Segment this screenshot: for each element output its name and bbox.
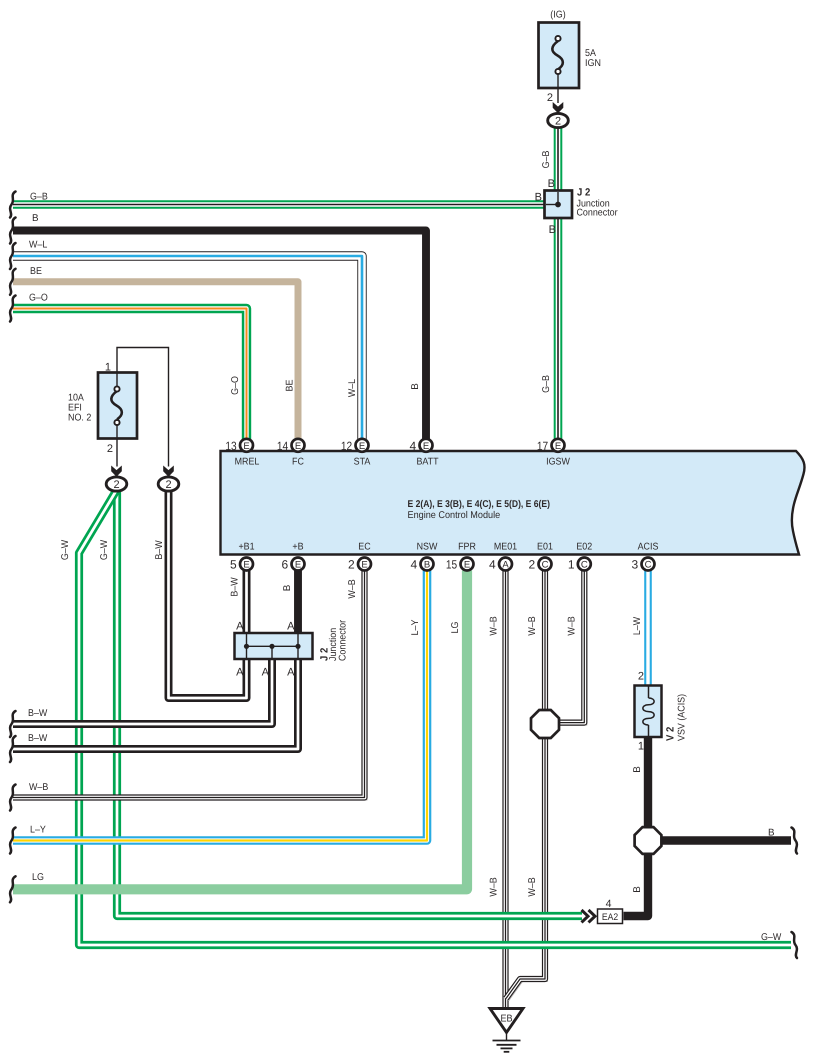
svg-text:V 2: V 2 bbox=[665, 727, 677, 741]
svg-text:E: E bbox=[295, 441, 301, 452]
svg-text:2: 2 bbox=[547, 92, 553, 104]
svg-text:B: B bbox=[632, 886, 643, 893]
svg-text:5: 5 bbox=[230, 558, 237, 572]
svg-text:B: B bbox=[535, 192, 542, 204]
svg-text:2: 2 bbox=[555, 115, 561, 127]
svg-text:W–B: W–B bbox=[527, 877, 538, 897]
svg-text:B: B bbox=[424, 560, 430, 571]
svg-text:B: B bbox=[410, 383, 421, 390]
svg-text:A: A bbox=[236, 667, 244, 679]
svg-text:W–B: W–B bbox=[567, 616, 578, 636]
svg-text:W–B: W–B bbox=[29, 782, 49, 793]
svg-text:E: E bbox=[464, 560, 470, 571]
svg-text:4: 4 bbox=[410, 439, 417, 453]
svg-text:1: 1 bbox=[105, 362, 111, 374]
svg-text:G–B: G–B bbox=[541, 375, 552, 393]
svg-text:FC: FC bbox=[292, 457, 304, 468]
svg-text:15: 15 bbox=[446, 558, 458, 572]
svg-text:B: B bbox=[549, 224, 556, 236]
svg-text:2: 2 bbox=[107, 443, 113, 455]
svg-text:A: A bbox=[262, 667, 270, 679]
svg-text:W–B: W–B bbox=[489, 877, 500, 897]
svg-text:C: C bbox=[542, 560, 549, 571]
svg-text:VSV (ACIS): VSV (ACIS) bbox=[677, 694, 688, 741]
svg-text:G–W: G–W bbox=[60, 539, 71, 560]
svg-text:W–B: W–B bbox=[489, 616, 500, 636]
svg-text:W–L: W–L bbox=[29, 240, 48, 251]
svg-text:(IG): (IG) bbox=[550, 10, 565, 21]
svg-text:L–W: L–W bbox=[632, 616, 643, 635]
svg-text:B: B bbox=[32, 213, 39, 224]
svg-text:EC: EC bbox=[358, 542, 370, 553]
svg-text:4: 4 bbox=[411, 558, 418, 572]
svg-text:MREL: MREL bbox=[235, 457, 260, 468]
svg-text:B: B bbox=[768, 828, 775, 839]
svg-text:3: 3 bbox=[632, 558, 639, 572]
svg-text:E01: E01 bbox=[537, 542, 553, 553]
svg-text:2: 2 bbox=[348, 558, 355, 572]
svg-text:13: 13 bbox=[225, 439, 237, 453]
svg-text:12: 12 bbox=[341, 439, 353, 453]
svg-text:J 2: J 2 bbox=[577, 187, 590, 199]
svg-text:Engine Control Module: Engine Control Module bbox=[408, 510, 501, 521]
svg-text:E: E bbox=[555, 441, 561, 452]
svg-text:2: 2 bbox=[165, 479, 171, 491]
svg-text:6: 6 bbox=[282, 558, 289, 572]
svg-text:G–W: G–W bbox=[99, 539, 110, 560]
svg-text:L–Y: L–Y bbox=[30, 825, 46, 836]
svg-text:NO. 2: NO. 2 bbox=[68, 413, 91, 424]
svg-text:G–B: G–B bbox=[30, 192, 48, 203]
svg-text:G–W: G–W bbox=[761, 932, 782, 943]
svg-text:LG: LG bbox=[450, 622, 461, 634]
svg-text:1: 1 bbox=[568, 558, 575, 572]
svg-text:B–W: B–W bbox=[28, 733, 48, 744]
svg-text:G–O: G–O bbox=[230, 376, 241, 395]
svg-text:BATT: BATT bbox=[416, 457, 438, 468]
svg-text:2: 2 bbox=[529, 558, 536, 572]
svg-text:4: 4 bbox=[489, 558, 496, 572]
svg-text:2: 2 bbox=[113, 479, 119, 491]
svg-text:E: E bbox=[243, 560, 249, 571]
svg-text:ME01: ME01 bbox=[494, 542, 517, 553]
svg-text:W–L: W–L bbox=[347, 378, 358, 397]
svg-text:+B: +B bbox=[292, 542, 304, 553]
svg-text:4: 4 bbox=[606, 898, 612, 910]
svg-text:G–O: G–O bbox=[29, 293, 48, 304]
svg-text:Connector: Connector bbox=[577, 208, 619, 219]
svg-text:A: A bbox=[287, 667, 295, 679]
svg-text:Connector: Connector bbox=[338, 619, 349, 661]
svg-text:B: B bbox=[282, 584, 293, 591]
svg-text:B–W: B–W bbox=[154, 540, 165, 560]
svg-text:E: E bbox=[361, 560, 367, 571]
svg-text:E02: E02 bbox=[576, 542, 592, 553]
svg-text:B: B bbox=[632, 766, 643, 773]
svg-text:E: E bbox=[295, 560, 301, 571]
svg-text:B–W: B–W bbox=[28, 708, 48, 719]
svg-text:STA: STA bbox=[354, 457, 371, 468]
svg-text:EB: EB bbox=[500, 1014, 512, 1025]
svg-text:L–Y: L–Y bbox=[410, 619, 421, 635]
svg-text:A: A bbox=[502, 560, 509, 571]
svg-text:E 2(A), E 3(B), E 4(C), E 5(D): E 2(A), E 3(B), E 4(C), E 5(D), E 6(E) bbox=[408, 499, 551, 510]
svg-text:IGN: IGN bbox=[585, 58, 601, 69]
svg-text:NSW: NSW bbox=[417, 542, 438, 553]
svg-text:B–W: B–W bbox=[230, 577, 241, 597]
svg-text:BE: BE bbox=[30, 266, 42, 277]
svg-text:2: 2 bbox=[638, 671, 644, 683]
svg-text:ACIS: ACIS bbox=[638, 542, 659, 553]
svg-text:B: B bbox=[548, 178, 555, 190]
svg-text:G–B: G–B bbox=[541, 150, 552, 168]
svg-text:C: C bbox=[581, 560, 588, 571]
svg-text:+B1: +B1 bbox=[238, 542, 254, 553]
svg-text:E: E bbox=[243, 441, 249, 452]
svg-text:FPR: FPR bbox=[458, 542, 476, 553]
svg-text:17: 17 bbox=[537, 439, 549, 453]
svg-text:W–B: W–B bbox=[347, 579, 358, 599]
svg-text:A: A bbox=[236, 621, 244, 633]
svg-text:1: 1 bbox=[638, 741, 644, 753]
svg-text:EA2: EA2 bbox=[602, 912, 618, 923]
svg-text:14: 14 bbox=[277, 439, 289, 453]
svg-text:LG: LG bbox=[32, 872, 44, 883]
svg-text:E: E bbox=[359, 441, 365, 452]
svg-text:BE: BE bbox=[285, 379, 296, 391]
svg-text:C: C bbox=[645, 560, 652, 571]
svg-text:W–B: W–B bbox=[527, 616, 538, 636]
svg-text:E: E bbox=[423, 441, 429, 452]
svg-text:A: A bbox=[287, 621, 295, 633]
svg-text:IGSW: IGSW bbox=[546, 457, 570, 468]
